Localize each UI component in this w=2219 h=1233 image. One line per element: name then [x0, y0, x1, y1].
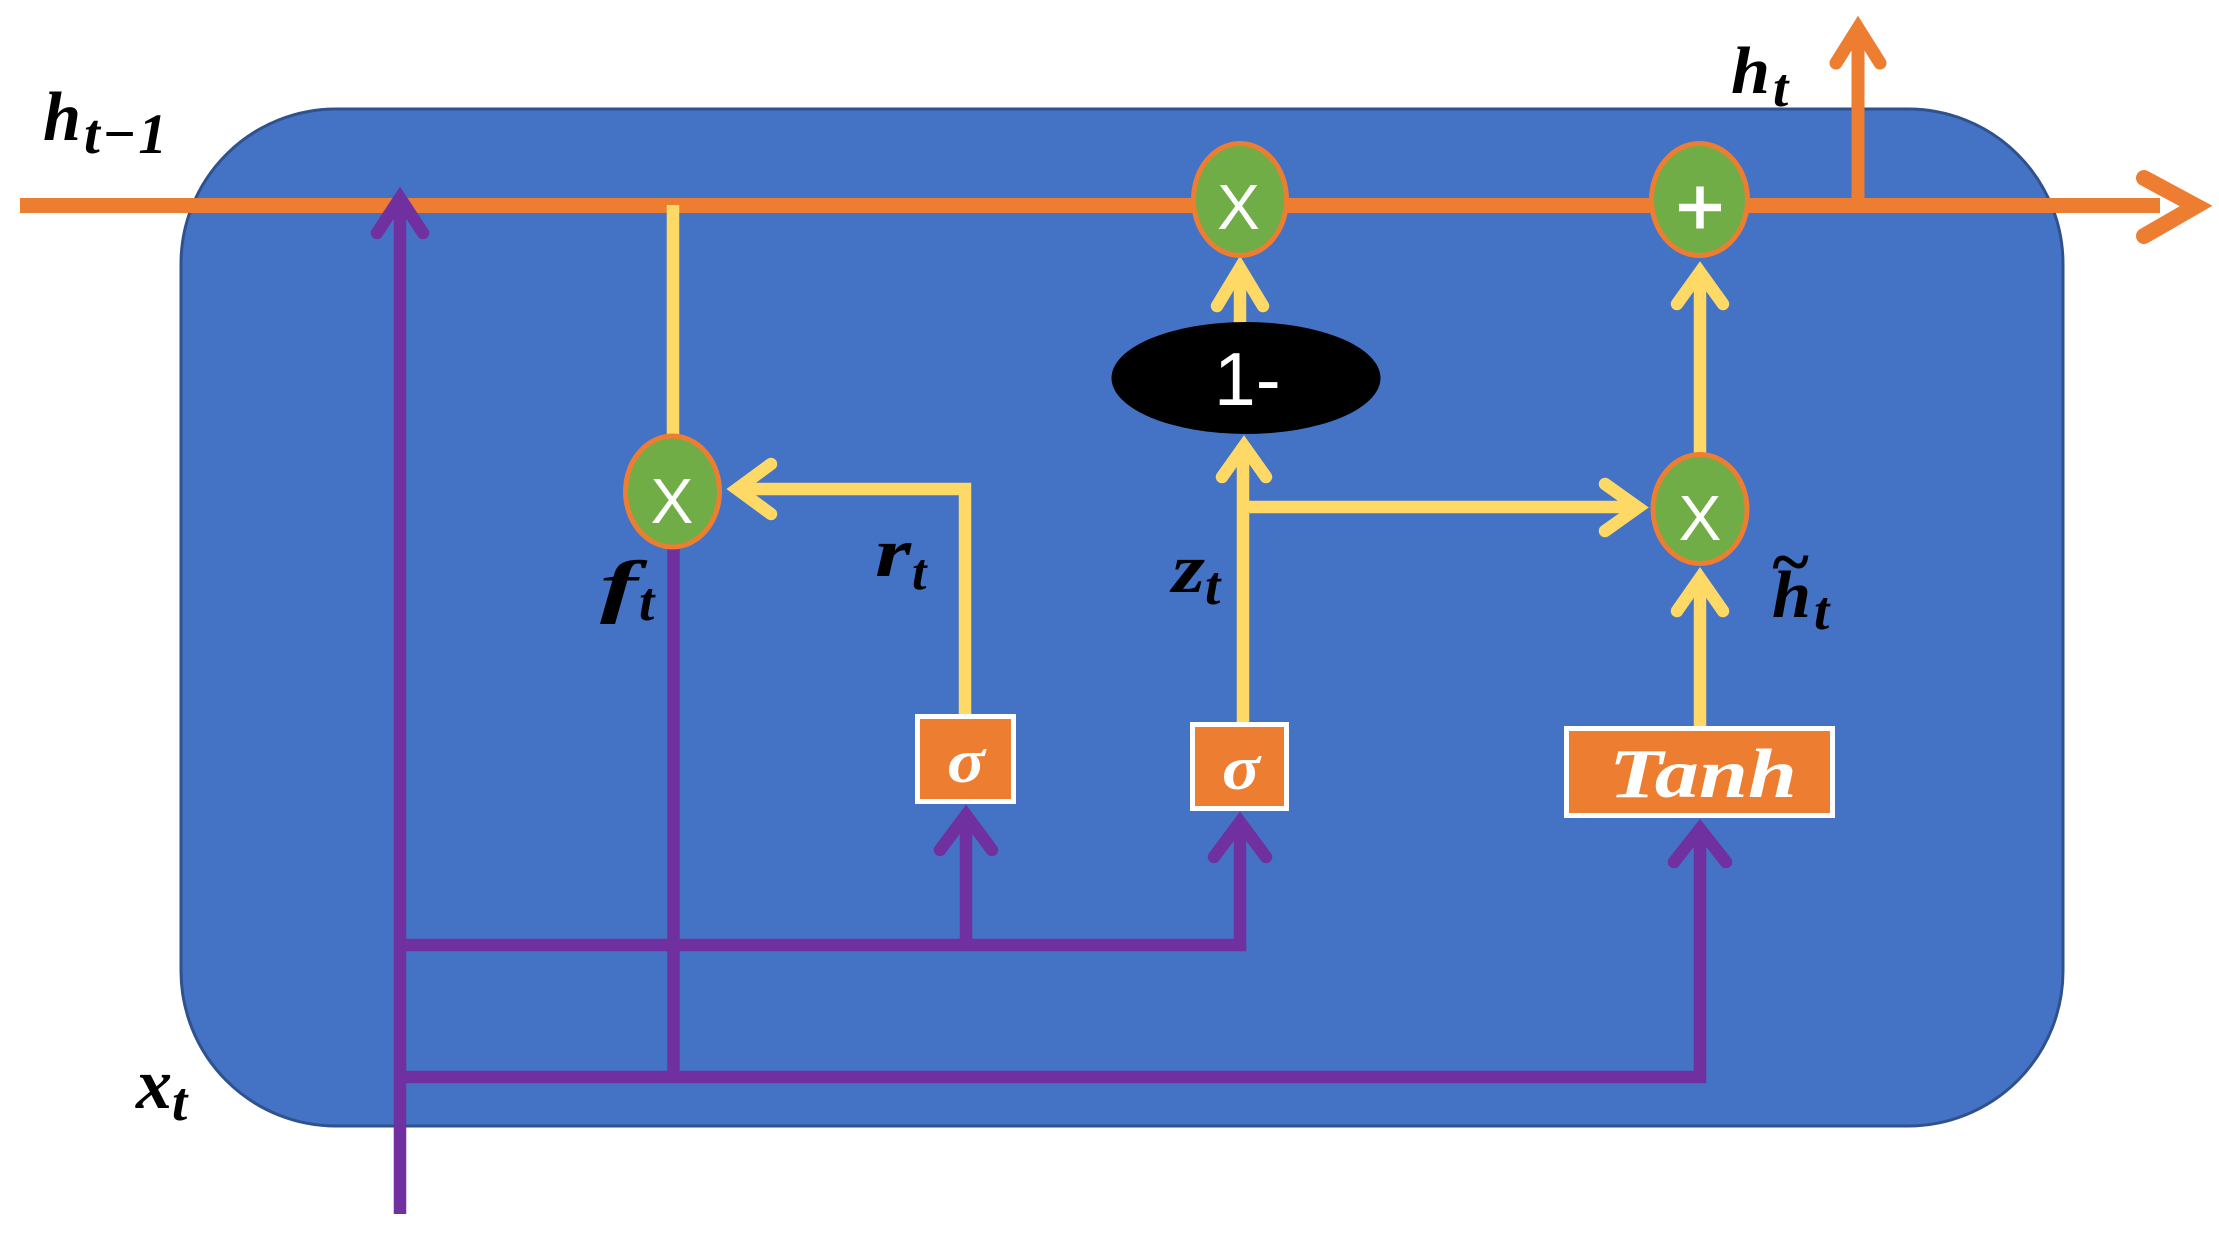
svg-text:z: z	[1170, 531, 1205, 608]
svg-text:t: t	[1205, 555, 1222, 616]
svg-text:1-: 1-	[1214, 337, 1281, 421]
svg-text:t: t	[912, 544, 928, 601]
svg-text:h: h	[43, 79, 81, 156]
svg-text:~: ~	[1770, 524, 1810, 601]
svg-text:t: t	[639, 571, 656, 632]
svg-text:t: t	[172, 1071, 189, 1132]
svg-text:t: t	[1814, 580, 1831, 641]
svg-text:X: X	[1217, 171, 1260, 243]
svg-text:Tanh: Tanh	[1609, 736, 1797, 813]
svg-text:x: x	[135, 1044, 172, 1124]
svg-text:r: r	[875, 515, 912, 592]
svg-text:t−1: t−1	[84, 103, 169, 166]
svg-text:σ: σ	[947, 728, 987, 796]
svg-text:X: X	[1679, 482, 1722, 554]
svg-text:σ: σ	[1222, 735, 1262, 803]
svg-text:h: h	[1731, 34, 1770, 108]
svg-text:X: X	[651, 465, 694, 537]
svg-text:t: t	[1773, 57, 1790, 118]
